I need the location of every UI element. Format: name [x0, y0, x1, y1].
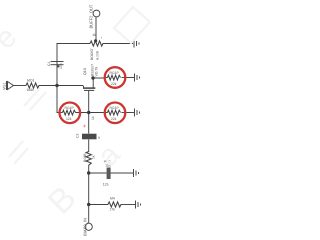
- decorative watermark shapes: [114, 7, 150, 43]
- svg-text:R08B: R08B: [83, 153, 87, 162]
- capacitor C1: [51, 62, 64, 65]
- svg-text:1k: 1k: [92, 155, 96, 159]
- ground: [136, 201, 141, 209]
- svg-text:1k: 1k: [91, 116, 95, 120]
- svg-text:Q1S: Q1S: [83, 67, 87, 75]
- resistor R7: [86, 152, 91, 166]
- wire: [89, 172, 107, 174]
- resistor R2 in circle: [63, 110, 76, 115]
- terminal BIAS_IN: [85, 223, 92, 230]
- resistor R6 in circle: [108, 110, 121, 115]
- svg-text:BS2507: BS2507: [90, 64, 94, 76]
- svg-text:RG1P: RG1P: [65, 106, 75, 110]
- svg-text:12k: 12k: [66, 117, 72, 121]
- svg-text:*: *: [101, 37, 103, 41]
- svg-text:VO.79: VO.79: [94, 67, 98, 77]
- svg-text:MO1: MO1: [27, 79, 34, 83]
- box component C2: [107, 168, 111, 180]
- svg-text:BIAS2_IN: BIAS2_IN: [83, 218, 88, 236]
- wire: [95, 17, 97, 40]
- svg-text:a: a: [98, 136, 100, 140]
- node out: [91, 76, 94, 79]
- red plus mark: [83, 125, 86, 128]
- svg-text:M4: M4: [110, 197, 115, 201]
- highlight circle B: [60, 103, 81, 124]
- svg-text:RG1P: RG1P: [110, 71, 120, 75]
- ground: [134, 169, 139, 177]
- svg-text:RG1P: RG1P: [110, 106, 120, 110]
- wire: [111, 172, 134, 174]
- node mid: [87, 111, 90, 114]
- wire: [88, 140, 90, 153]
- resistor R5: [90, 41, 103, 46]
- wire: [122, 77, 135, 79]
- svg-text:e: e: [0, 20, 23, 55]
- svg-text:C1: C1: [47, 62, 51, 66]
- wire: [121, 204, 136, 206]
- terminal BUFF_OUT: [93, 10, 100, 17]
- wire: [122, 112, 135, 114]
- resistor R3 in circle: [108, 75, 121, 80]
- ground: [134, 40, 139, 48]
- junction dots: [55, 39, 97, 206]
- watermark: [9, 7, 150, 164]
- svg-text:BOOST: BOOST: [90, 48, 94, 60]
- wire: [89, 204, 108, 206]
- input port VG1: [7, 81, 27, 90]
- svg-text:10n: 10n: [59, 63, 63, 69]
- svg-text:1k: 1k: [92, 33, 96, 37]
- wire: [57, 44, 90, 86]
- svg-text:17k: 17k: [110, 208, 116, 212]
- node low: [87, 171, 90, 174]
- svg-text:22k: 22k: [111, 117, 117, 121]
- wire: [60, 112, 63, 114]
- component boxes: [57, 65, 111, 179]
- svg-text:A.00K: A.00K: [95, 50, 99, 60]
- capacitor C1 marking: [57, 65, 60, 67]
- node bottom: [87, 203, 90, 206]
- node left: [55, 84, 58, 87]
- red circles: [60, 67, 126, 123]
- highlight circle A: [105, 67, 126, 88]
- transistor T1: [83, 86, 95, 94]
- resistor R1: [26, 83, 39, 88]
- svg-text:100k: 100k: [27, 88, 35, 92]
- box component L1: [82, 134, 97, 140]
- svg-text:22k: 22k: [111, 82, 117, 86]
- wire: [88, 165, 90, 205]
- wire: [104, 77, 107, 79]
- resistor R4: [108, 202, 121, 207]
- wire: [76, 112, 108, 114]
- wire: [57, 86, 60, 113]
- svg-text:C3: C3: [76, 134, 80, 138]
- node top: [94, 39, 97, 42]
- wire: [93, 78, 104, 86]
- svg-text:BUFF2_OUT: BUFF2_OUT: [89, 4, 94, 28]
- wire: [103, 43, 134, 45]
- ground: [135, 74, 140, 82]
- svg-text:B: B: [41, 179, 84, 222]
- svg-text:VG1: VG1: [2, 82, 6, 90]
- wire: [88, 205, 90, 224]
- wire: [39, 85, 84, 87]
- ground: [135, 109, 140, 117]
- highlight circle C: [105, 103, 126, 124]
- wire: [88, 93, 90, 134]
- svg-text:a: a: [91, 138, 126, 173]
- svg-text:125: 125: [103, 183, 109, 187]
